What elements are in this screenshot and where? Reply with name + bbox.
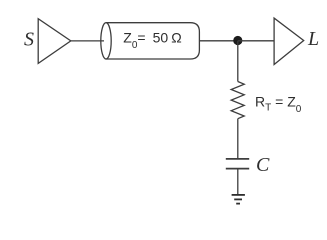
- svg-text:Z0=50Ω: Z0=50Ω: [123, 30, 181, 52]
- source driver triangle: [38, 19, 71, 64]
- transmission line left end cap ellipse: [101, 23, 111, 59]
- wire transmission line to node: [199, 40, 237, 42]
- svg-text:S: S: [24, 28, 34, 50]
- wire resistor to capacitor: [237, 119, 239, 159]
- capacitor top plate: [226, 158, 249, 160]
- svg-text:C: C: [256, 154, 270, 176]
- resistor RT zigzag: [231, 82, 244, 119]
- wire source to transmission line: [71, 40, 104, 42]
- ground symbol: [232, 195, 245, 204]
- transmission line body Z0: [106, 23, 199, 59]
- node junction dot: [233, 36, 242, 45]
- capacitor bottom plate: [226, 168, 249, 170]
- svg-text:RT = Z0: RT = Z0: [255, 94, 302, 116]
- wire capacitor to ground: [237, 170, 239, 195]
- load receiver triangle: [274, 18, 304, 64]
- svg-text:L: L: [307, 28, 319, 50]
- wire node to load: [238, 40, 274, 42]
- wire node down to resistor: [237, 41, 239, 82]
